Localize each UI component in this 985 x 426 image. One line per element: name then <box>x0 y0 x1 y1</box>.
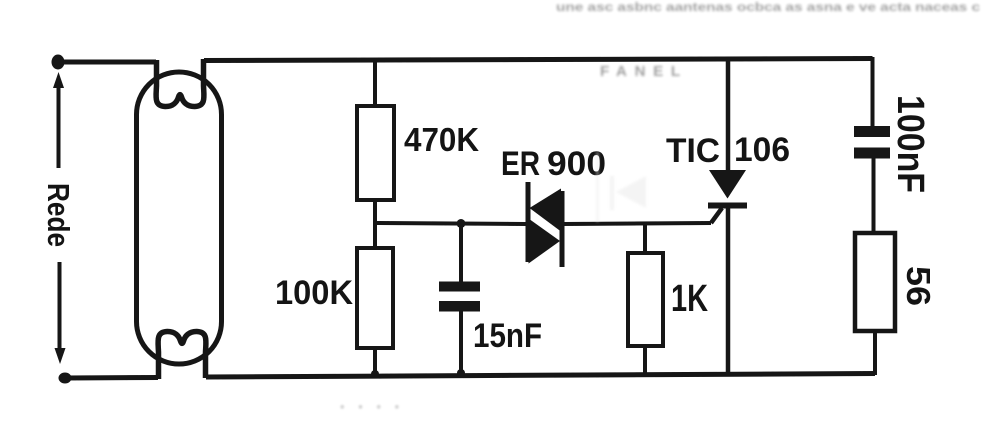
node junction dot 15nF bottom <box>457 369 465 377</box>
lamp top filament <box>156 59 204 107</box>
diac ER900 left bar <box>526 182 531 262</box>
svg-text:TIC: TIC <box>666 132 720 170</box>
svg-text:FANEL: FANEL <box>600 63 680 80</box>
svg-text:1K: 1K <box>671 278 708 320</box>
wire bottom rail left segment <box>65 375 158 381</box>
diac ER900 top triangle <box>530 189 562 232</box>
svg-text:une asc asbnc aantenas ocbca a: une asc asbnc aantenas ocbca as asna e v… <box>556 0 980 14</box>
Rede arrow up <box>57 84 61 168</box>
wire 56 bottom <box>873 331 877 375</box>
svg-text:15nF: 15nF <box>473 317 542 355</box>
svg-text:106: 106 <box>734 131 790 169</box>
diac ER900 bottom triangle <box>529 219 561 264</box>
wire 15nF top <box>459 223 463 283</box>
thyristor Q TIC106 triangle <box>709 170 746 199</box>
faint scan bleed-through artifacts <box>340 0 980 416</box>
wire 470K top <box>373 59 377 106</box>
wire 1K bottom <box>643 346 647 375</box>
resistor R 100K body <box>357 248 393 348</box>
lamp bottom filament <box>158 331 206 379</box>
wire diac to gate node <box>564 223 711 224</box>
capacitor C 15nF top plate <box>439 282 480 292</box>
Rede arrow down <box>58 262 62 352</box>
svg-text:100K: 100K <box>275 274 353 312</box>
thyristor Q TIC106 gate lead <box>711 208 722 223</box>
wire 470K bottom to node <box>373 200 377 248</box>
wire TIC106 cathode down <box>726 208 731 375</box>
wire 100K bottom <box>373 348 377 376</box>
node top-left terminal dot <box>52 55 65 70</box>
wire 100nF to 56 <box>872 158 876 233</box>
wire junction horizontal to diac <box>375 223 526 224</box>
wire top rail left segment <box>58 60 156 65</box>
svg-text:470K: 470K <box>404 121 479 158</box>
thyristor Q TIC106 cathode bar <box>708 203 747 209</box>
wire 100nF top <box>871 57 875 128</box>
svg-text:Rede: Rede <box>41 183 76 247</box>
capacitor C 15nF bottom plate <box>439 301 480 312</box>
wire 15nF bottom <box>459 311 463 375</box>
wire top rail right segment <box>204 59 873 61</box>
node junction dot at 100K/rail <box>371 370 379 378</box>
lamp tube outline <box>137 72 222 364</box>
resistor R 470K body <box>357 106 394 200</box>
diac ER900 right bar <box>560 191 565 267</box>
svg-text:100nF: 100nF <box>889 95 931 193</box>
svg-text:56: 56 <box>900 266 937 306</box>
wire 1K top <box>643 224 647 253</box>
capacitor C 100nF top plate <box>854 126 890 137</box>
wire bottom rail right segment <box>206 374 875 378</box>
resistor R 1K body <box>628 253 663 346</box>
capacitor C 100nF bottom plate <box>854 148 890 159</box>
node junction dot 15nF top <box>457 219 466 228</box>
svg-text:····: ···· <box>340 399 400 416</box>
thyristor Q TIC106 anode wire <box>726 59 731 172</box>
svg-text:ER: ER <box>501 145 540 183</box>
node bottom-left terminal dot <box>59 373 72 384</box>
resistor R 56 body <box>855 233 895 331</box>
